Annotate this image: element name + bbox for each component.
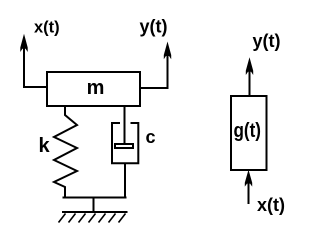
svg-text:c: c — [146, 127, 156, 147]
arrow x(t) left — [20, 34, 27, 87]
svg-text:x(t): x(t) — [34, 19, 60, 37]
damper rod lower — [124, 163, 126, 198]
center post — [93, 197, 95, 212]
spring k — [54, 106, 77, 198]
arrow y(t) right — [246, 57, 253, 96]
svg-text:m: m — [87, 77, 105, 99]
damper rod upper — [124, 106, 126, 146]
ground line — [62, 211, 128, 213]
bottom bar — [63, 197, 127, 199]
block g(t) — [231, 96, 267, 170]
mass m rectangle — [47, 72, 140, 106]
wire mass to right arrow — [139, 87, 169, 89]
svg-text:x(t): x(t) — [257, 195, 285, 215]
svg-text:g(t): g(t) — [234, 120, 262, 142]
svg-text:y(t): y(t) — [140, 17, 168, 37]
arrow x(t) right — [245, 170, 252, 204]
ground hatching — [59, 214, 126, 223]
svg-text:k: k — [39, 135, 51, 157]
wire left arrow to mass — [23, 86, 48, 88]
svg-text:y(t): y(t) — [253, 31, 281, 51]
damper piston — [115, 144, 133, 148]
arrow y(t) left — [164, 42, 171, 89]
damper cup — [112, 123, 138, 163]
